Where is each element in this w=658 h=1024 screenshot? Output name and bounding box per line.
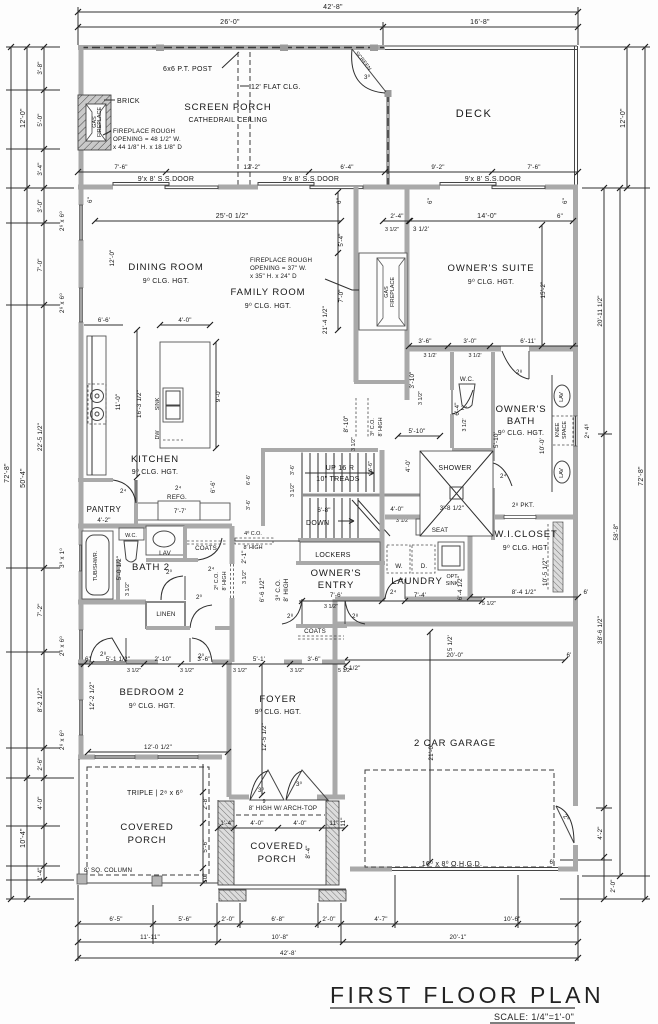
- svg-text:2⁴: 2⁴: [390, 589, 397, 596]
- svg-text:20'-0": 20'-0": [447, 652, 464, 659]
- svg-text:8'-4 1/2": 8'-4 1/2": [512, 589, 536, 596]
- dimension line top 26'-0" / 16'-8": [75, 19, 581, 45]
- svg-text:12'-2": 12'-2": [244, 164, 261, 171]
- wall family/owner's suite divider: [354, 187, 359, 382]
- svg-text:7'-6": 7'-6": [527, 164, 540, 171]
- svg-text:4'-0": 4'-0": [250, 820, 263, 827]
- foyer vertical dim: [259, 661, 268, 798]
- svg-text:KITCHEN: KITCHEN: [131, 454, 179, 465]
- svg-text:9⁰ CLG. HGT.: 9⁰ CLG. HGT.: [129, 702, 175, 710]
- svg-text:FIREPLACE ROUGH: FIREPLACE ROUGH: [113, 128, 175, 135]
- svg-text:2⁴: 2⁴: [120, 488, 127, 495]
- bath2 walls inner: [183, 526, 187, 560]
- svg-text:1'-4": 1'-4": [220, 820, 233, 827]
- title: [330, 982, 604, 1023]
- hall dims near bath: [246, 402, 500, 510]
- right dimension column 20'-11 1/2" / 38'-6 1/2" / 4'-2": [597, 185, 617, 902]
- svg-text:7'-6': 7'-6': [330, 592, 342, 599]
- svg-text:3⁰ C.O.: 3⁰ C.O.: [370, 418, 376, 436]
- svg-text:3 1/2": 3 1/2": [233, 668, 247, 674]
- brick fireplace (screen porch): [78, 95, 111, 150]
- WC west wall: [450, 352, 454, 390]
- svg-text:3 1/2": 3 1/2": [125, 582, 131, 596]
- washer dryer: [387, 545, 435, 573]
- svg-text:ENTRY: ENTRY: [318, 580, 355, 591]
- svg-text:16'-3 1/2": 16'-3 1/2": [136, 390, 143, 418]
- label fireplace rough opening (porch): [103, 128, 182, 151]
- owner's suite west wall: [405, 187, 410, 349]
- svg-text:x 35" H. x 24" D: x 35" H. x 24" D: [250, 273, 297, 280]
- vanity owner's bath: [552, 375, 573, 492]
- covered porch left outline: [79, 759, 218, 883]
- svg-text:OWNER'S: OWNER'S: [311, 568, 362, 579]
- laundry door arc: [385, 579, 405, 599]
- svg-text:11'-0": 11'-0": [115, 394, 122, 411]
- svg-text:42'-8": 42'-8": [323, 4, 343, 11]
- svg-text:5'-10": 5'-10": [409, 428, 426, 435]
- svg-text:22'-5 1/2": 22'-5 1/2": [37, 423, 44, 451]
- svg-text:6'-8": 6'-8": [271, 916, 284, 923]
- laundry / WIC divider: [468, 517, 473, 599]
- right dimension column 72'-8": [638, 44, 648, 902]
- svg-text:3'-10": 3'-10": [409, 372, 416, 389]
- svg-text:2'-4": 2'-4": [390, 213, 403, 220]
- svg-text:7'-0": 7'-0": [37, 258, 44, 271]
- owner's entry south doors: [282, 599, 365, 624]
- svg-text:LINEN: LINEN: [156, 611, 175, 618]
- svg-text:LOCKERS: LOCKERS: [315, 552, 351, 559]
- svg-text:9'x 8' S.S.DOOR: 9'x 8' S.S.DOOR: [138, 176, 195, 183]
- svg-text:3'-6": 3'-6": [307, 656, 320, 663]
- right dimension column 12'-0" deck: [620, 44, 630, 191]
- suite/bath dim row 3'-6 3'-0 6'-11: [406, 338, 578, 359]
- svg-text:8' SQ. COLUMN: 8' SQ. COLUMN: [84, 867, 132, 874]
- main house top wall with sliding doors: [78, 185, 578, 190]
- tub: [82, 531, 113, 599]
- svg-text:BATH: BATH: [507, 416, 535, 427]
- svg-text:DW: DW: [155, 430, 161, 440]
- svg-text:2'-6": 2'-6": [37, 757, 44, 770]
- svg-text:5 1/2": 5 1/2": [482, 601, 496, 607]
- bedroom2 dim row: [78, 656, 352, 674]
- svg-text:OPENING = 37" W.: OPENING = 37" W.: [250, 265, 307, 272]
- svg-text:FIREPLACE: FIREPLACE: [97, 107, 103, 137]
- svg-text:3'-6': 3'-6': [246, 500, 252, 510]
- svg-text:x 44 1/8" H. x 18 1/8" D: x 44 1/8" H. x 18 1/8" D: [113, 144, 182, 151]
- bedroom2 windows: [95, 755, 135, 758]
- svg-text:5 1/2': 5 1/2': [447, 635, 454, 651]
- svg-text:21'-4 1/2": 21'-4 1/2": [322, 306, 329, 334]
- svg-text:DINING ROOM: DINING ROOM: [128, 262, 203, 273]
- svg-text:3 1/2": 3 1/2": [180, 668, 194, 674]
- svg-text:3⁰: 3⁰: [296, 781, 303, 788]
- svg-text:2⁰: 2⁰: [196, 594, 203, 601]
- svg-text:FIRST FLOOR PLAN: FIRST FLOOR PLAN: [330, 982, 604, 1008]
- svg-text:2'-1": 2'-1": [241, 550, 248, 563]
- bath door arc: [493, 463, 512, 488]
- svg-text:6'-11': 6'-11': [520, 338, 536, 345]
- entry porch piers: [218, 801, 234, 885]
- svg-text:10'-8": 10'-8": [272, 934, 289, 941]
- svg-text:4'-2": 4'-2": [97, 517, 110, 524]
- svg-text:5'-0 1/2": 5'-0 1/2": [116, 556, 123, 580]
- svg-text:3⁰: 3⁰: [364, 74, 371, 81]
- sliding door 1: [113, 183, 218, 189]
- svg-text:11'-11": 11'-11": [140, 934, 160, 941]
- svg-text:3 1/2': 3 1/2': [462, 418, 468, 431]
- svg-text:10'-4": 10'-4": [20, 828, 27, 848]
- bath2 north wall: [78, 524, 232, 529]
- svg-text:3 1/2': 3 1/2': [413, 226, 429, 233]
- svg-text:FIREPLACE: FIREPLACE: [390, 277, 396, 307]
- svg-text:2⁴: 2⁴: [208, 566, 215, 573]
- svg-text:6'-8": 6'-8": [317, 507, 330, 514]
- svg-text:9'x 8' S.S.DOOR: 9'x 8' S.S.DOOR: [465, 176, 522, 183]
- svg-text:3'-4": 3'-4": [37, 162, 44, 175]
- WC east / shower west wall: [491, 352, 495, 540]
- hall west wall (kitchen side): [261, 450, 265, 526]
- svg-text:4'-0": 4'-0": [293, 820, 306, 827]
- svg-text:SHOWER: SHOWER: [438, 465, 471, 472]
- left extension stub lines: [6, 47, 74, 899]
- garage dim 21'-0": [340, 629, 555, 866]
- svg-text:2⁸: 2⁸: [287, 613, 294, 620]
- seat: [416, 519, 454, 535]
- svg-text:6': 6': [566, 652, 571, 659]
- dim 14'-0" suite: [406, 213, 576, 233]
- opt sink: [438, 542, 464, 587]
- foyer north walls: [284, 660, 345, 665]
- svg-text:3 1/2": 3 1/2": [127, 668, 141, 674]
- svg-text:1'-4": 1'-4": [37, 867, 44, 880]
- svg-text:2'-10": 2'-10": [155, 656, 172, 663]
- svg-text:5'-10': 5'-10': [493, 432, 500, 448]
- foyer left wall: [227, 662, 232, 797]
- svg-text:LAV: LAV: [159, 550, 172, 557]
- svg-text:4'-0': 4'-0': [405, 460, 412, 472]
- svg-text:10'-0': 10'-0': [539, 438, 546, 454]
- bedroom2 north wall: [78, 628, 232, 662]
- family room vertical dims: [109, 189, 345, 334]
- svg-text:2'-0": 2'-0": [322, 916, 335, 923]
- svg-text:PORCH: PORCH: [128, 835, 167, 846]
- screen porch right screened wall + corner screen door: [352, 49, 392, 186]
- svg-text:3 1/2': 3 1/2': [423, 353, 436, 359]
- svg-text:10" TREADS: 10" TREADS: [316, 476, 360, 483]
- svg-text:SCALE: 1/4"=1'-0": SCALE: 1/4"=1'-0": [494, 1012, 574, 1022]
- svg-text:8' HIGH W/ ARCH-TOP: 8' HIGH W/ ARCH-TOP: [249, 805, 317, 812]
- svg-text:10'-5 1/2": 10'-5 1/2": [542, 558, 549, 586]
- laundry south wall: [335, 597, 482, 602]
- svg-text:9⁰ CLG. HGT.: 9⁰ CLG. HGT.: [498, 429, 544, 437]
- svg-text:COVERED: COVERED: [250, 841, 303, 852]
- svg-text:W.C.: W.C.: [125, 533, 137, 539]
- svg-text:12'-0": 12'-0": [20, 108, 27, 128]
- svg-text:16'-6": 16'-6": [368, 461, 374, 475]
- svg-text:42'-8': 42'-8': [280, 950, 296, 957]
- right dimension column 58'-8": [613, 185, 623, 879]
- upper stair treads: [302, 453, 374, 539]
- svg-text:PORCH: PORCH: [258, 854, 297, 865]
- svg-text:6": 6": [87, 197, 94, 203]
- svg-text:8' HIGH: 8' HIGH: [283, 578, 290, 601]
- svg-text:3 1/2': 3 1/2': [468, 353, 481, 359]
- bath2 east wall: [214, 526, 234, 662]
- svg-text:2⁴: 2⁴: [461, 405, 468, 412]
- bedroom2 dims: [85, 682, 231, 755]
- svg-text:2⁴ 4⁶: 2⁴ 4⁶: [584, 423, 591, 438]
- kitchen south counter + refg: [137, 494, 230, 520]
- misc small dims bath2: [116, 550, 248, 596]
- svg-text:6': 6': [549, 859, 554, 866]
- svg-text:12'-2 1/2": 12'-2 1/2": [89, 682, 96, 710]
- svg-text:20'-11 1/2": 20'-11 1/2": [597, 295, 604, 326]
- svg-text:11": 11": [340, 817, 347, 826]
- svg-text:5'-0": 5'-0": [37, 113, 44, 126]
- svg-text:COATS: COATS: [304, 628, 326, 635]
- svg-text:SEAT: SEAT: [432, 527, 449, 534]
- main left exterior wall with windows: [79, 185, 84, 759]
- svg-text:4'-0": 4'-0": [178, 317, 191, 324]
- svg-text:6x6 P.T. POST: 6x6 P.T. POST: [163, 66, 213, 73]
- screen porch top screened wall: [78, 45, 385, 52]
- gas fireplace owner's suite: [359, 253, 407, 330]
- svg-text:2⁸ PKT.: 2⁸ PKT.: [512, 502, 534, 509]
- cased opening 4-0: [232, 531, 300, 551]
- svg-text:9⁰ CLG. HGT.: 9⁰ CLG. HGT.: [245, 302, 291, 310]
- svg-text:BRICK: BRICK: [117, 98, 140, 105]
- svg-text:DOWN: DOWN: [306, 520, 329, 527]
- window right (knee space): [574, 416, 577, 446]
- svg-text:3'-0": 3'-0": [37, 199, 44, 212]
- window left bath2: [79, 545, 82, 571]
- svg-text:12' FLAT CLG.: 12' FLAT CLG.: [251, 84, 301, 91]
- coats closet (foyer): [296, 626, 347, 639]
- svg-text:11": 11": [329, 820, 338, 827]
- svg-text:12'-0 1/2": 12'-0 1/2": [144, 744, 172, 751]
- entry porch dim row: [215, 820, 348, 831]
- svg-text:3'-6': 3'-6': [290, 465, 296, 475]
- svg-text:5'-1 1/2": 5'-1 1/2": [106, 656, 130, 663]
- svg-text:2⁰ C.O.: 2⁰ C.O.: [214, 572, 220, 590]
- shower: [420, 451, 493, 536]
- window left 2: [79, 288, 82, 322]
- svg-text:LAV: LAV: [559, 468, 565, 478]
- svg-text:2 CAR GARAGE: 2 CAR GARAGE: [414, 738, 496, 749]
- garage dim 20'-0": [342, 635, 572, 672]
- svg-text:W.: W.: [395, 563, 403, 570]
- stair mid rail: [302, 494, 490, 497]
- svg-text:2⁸ x 6⁰: 2⁸ x 6⁰: [59, 730, 66, 750]
- svg-text:7'-2": 7'-2": [37, 603, 44, 616]
- svg-text:14'-0": 14'-0": [477, 213, 497, 220]
- svg-text:W.C.: W.C.: [460, 376, 474, 383]
- kitchen island: [155, 342, 210, 448]
- svg-text:3 1/2": 3 1/2": [418, 391, 424, 405]
- window left 1: [79, 205, 82, 240]
- svg-text:COVERED: COVERED: [120, 822, 173, 833]
- owner's entry dim line: [299, 576, 485, 610]
- svg-text:6'-6': 6'-6': [210, 481, 217, 493]
- svg-text:4'-2": 4'-2": [597, 826, 604, 839]
- svg-text:38'-6 1/2": 38'-6 1/2": [597, 616, 604, 644]
- svg-text:BATH 2: BATH 2: [132, 562, 170, 573]
- svg-text:6'-4": 6'-4": [340, 164, 353, 171]
- svg-text:12'-5 1/2": 12'-5 1/2": [261, 723, 268, 751]
- svg-text:9⁰ CLG. HGT.: 9⁰ CLG. HGT.: [503, 544, 549, 552]
- bath2 toilet: [119, 528, 144, 562]
- screen porch left wall: [79, 45, 84, 190]
- svg-text:D.: D.: [421, 563, 428, 570]
- svg-text:6': 6': [583, 589, 588, 596]
- svg-text:72'-8": 72'-8": [4, 463, 11, 483]
- entry arch doors: [229, 770, 345, 805]
- garage south wall + overhead door: [350, 868, 578, 871]
- bottom dimension row 1: [75, 916, 581, 927]
- bedroom2 south wall with windows: [78, 755, 222, 760]
- owner's bath west wall: [405, 349, 410, 400]
- wall below fireplace chase: [354, 380, 407, 384]
- lower stair treads + break: [310, 498, 390, 538]
- svg-text:9'-0': 9'-0': [215, 390, 222, 402]
- deck right edge: [575, 46, 578, 186]
- svg-text:3 1/2": 3 1/2": [385, 227, 399, 233]
- svg-text:3'-8": 3'-8": [37, 61, 44, 74]
- porch/deck interior dim row: [75, 164, 581, 175]
- bath2 lav: [146, 526, 184, 557]
- svg-text:6": 6": [562, 198, 569, 204]
- pantry walls: [78, 480, 136, 528]
- svg-text:7'-0": 7'-0": [338, 289, 345, 302]
- svg-text:TUB/SHWR.: TUB/SHWR.: [93, 551, 99, 581]
- svg-text:3 1/2": 3 1/2": [351, 437, 357, 451]
- dim 15'-2" suite vertical: [539, 222, 547, 349]
- bottom dimension row 2: [75, 934, 581, 945]
- coats closet (bath2 area): [187, 538, 226, 573]
- svg-text:6": 6": [85, 656, 91, 663]
- svg-text:BEDROOM 2: BEDROOM 2: [119, 687, 184, 698]
- svg-text:SPACE: SPACE: [562, 421, 568, 439]
- stair top wall: [261, 448, 493, 452]
- deck top edge: [385, 46, 577, 50]
- svg-text:6": 6": [557, 213, 563, 220]
- svg-text:UP 16 R: UP 16 R: [326, 465, 354, 472]
- WIC rods: [548, 522, 563, 592]
- svg-text:9'x 8' S.S.DOOR: 9'x 8' S.S.DOOR: [283, 176, 340, 183]
- svg-text:6'-5": 6'-5": [109, 916, 122, 923]
- bath2 door arcs: [161, 569, 212, 628]
- sliding door 2: [258, 183, 363, 189]
- svg-text:PANTRY: PANTRY: [87, 505, 122, 514]
- svg-text:4'-0": 4'-0": [37, 796, 44, 809]
- svg-text:LAV: LAV: [559, 392, 565, 402]
- kitchen dims: [84, 317, 222, 493]
- svg-text:LAUNDRY: LAUNDRY: [391, 576, 443, 587]
- svg-text:8'-10": 8'-10": [343, 416, 350, 433]
- svg-text:58'-8": 58'-8": [613, 524, 620, 541]
- garage corner door: [556, 806, 574, 843]
- garage dashed rect: [365, 770, 554, 867]
- svg-text:FAMILY ROOM: FAMILY ROOM: [230, 287, 305, 298]
- bedroom2 door arcs: [90, 638, 212, 662]
- svg-text:DECK: DECK: [456, 108, 493, 120]
- svg-text:2⁸ x 6⁰: 2⁸ x 6⁰: [59, 293, 66, 313]
- svg-text:3 1/2": 3 1/2": [290, 668, 304, 674]
- svg-text:6'-4 1/2": 6'-4 1/2": [457, 576, 464, 600]
- left dimension column inner segments: [37, 44, 47, 883]
- svg-text:CATHEDRAIL CEILING: CATHEDRAIL CEILING: [189, 117, 268, 124]
- lockers: [300, 542, 380, 562]
- svg-text:20'-1": 20'-1": [450, 934, 467, 941]
- svg-text:REFG.: REFG.: [167, 494, 187, 501]
- svg-text:6'-6 1/2": 6'-6 1/2": [259, 578, 266, 602]
- svg-text:OPENING = 48 1/2" W.: OPENING = 48 1/2" W.: [113, 136, 181, 143]
- svg-text:5'-4": 5'-4": [338, 233, 345, 246]
- flat ceiling dashed break lines: [238, 52, 250, 185]
- foyer right / garage left wall: [333, 599, 338, 797]
- svg-text:KNEE: KNEE: [555, 422, 561, 437]
- left dimension column 12'-0"/50'-4"/10'-4": [20, 44, 30, 902]
- svg-text:8' HIGH: 8' HIGH: [222, 571, 228, 590]
- svg-text:6'-4": 6'-4": [454, 402, 461, 415]
- dimension line top 42'-8": [75, 4, 581, 45]
- svg-text:9⁰ CLG. HGT.: 9⁰ CLG. HGT.: [468, 278, 514, 286]
- svg-text:SINK: SINK: [155, 397, 161, 410]
- svg-text:5 1/2": 5 1/2": [338, 668, 352, 674]
- svg-text:7'-7': 7'-7': [174, 508, 186, 515]
- svg-text:OWNER'S: OWNER'S: [496, 404, 547, 415]
- svg-text:OWNER'S SUITE: OWNER'S SUITE: [448, 263, 535, 274]
- svg-text:TRIPLE | 2⁸ x 6⁰: TRIPLE | 2⁸ x 6⁰: [127, 789, 183, 797]
- kitchen counters left: [87, 336, 106, 475]
- svg-text:8'-2 1/2": 8'-2 1/2": [37, 688, 44, 712]
- left dimension column 72'-8": [4, 44, 14, 902]
- dim 2'-4" top: [380, 213, 413, 233]
- linen closet: [146, 602, 185, 628]
- svg-text:72'-8": 72'-8": [638, 466, 645, 486]
- svg-text:25'-0 1/2": 25'-0 1/2": [216, 213, 249, 220]
- laundry WIC dim row: [259, 578, 589, 607]
- svg-text:SCREEN PORCH: SCREEN PORCH: [184, 102, 271, 113]
- svg-text:2'-0": 2'-0": [610, 879, 617, 892]
- svg-text:16'-8": 16'-8": [470, 19, 490, 26]
- svg-text:3⁰ C.O.: 3⁰ C.O.: [275, 579, 282, 601]
- suite door arc: [502, 351, 529, 379]
- svg-text:8' HIGH: 8' HIGH: [378, 417, 384, 436]
- right extension stub lines: [560, 47, 650, 899]
- svg-text:2⁴: 2⁴: [500, 473, 507, 480]
- svg-text:7'-6": 7'-6": [114, 164, 127, 171]
- svg-text:4'-0": 4'-0": [390, 506, 403, 513]
- bottom extension verticals: [78, 875, 578, 961]
- WIC north wall + pocket door: [385, 502, 578, 519]
- svg-text:15'-2": 15'-2": [540, 282, 547, 299]
- svg-text:3 1/2": 3 1/2": [242, 570, 248, 584]
- window left 3: [79, 630, 82, 665]
- sliding door 3: [440, 183, 545, 189]
- svg-text:8' HIGH: 8' HIGH: [243, 545, 262, 551]
- svg-text:6": 6": [427, 198, 434, 204]
- stair right wall: [380, 450, 385, 562]
- svg-text:3⁰ x 1⁰: 3⁰ x 1⁰: [59, 548, 66, 568]
- svg-text:12'-0": 12'-0": [109, 250, 116, 267]
- WC door arc: [452, 390, 473, 414]
- svg-text:3'-0": 3'-0": [463, 338, 476, 345]
- toilet WC: [459, 376, 475, 408]
- suite/bath divider wall: [405, 347, 578, 352]
- svg-text:4'-7": 4'-7": [374, 916, 387, 923]
- bath2 south wall: [78, 600, 146, 605]
